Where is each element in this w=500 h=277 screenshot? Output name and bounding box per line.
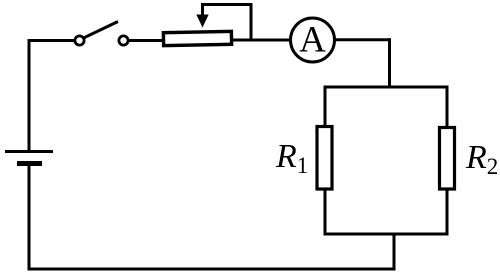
wire ammeter to corner [335, 38, 392, 41]
wire parallel bottom rail [324, 233, 449, 236]
wire R2 bottom lead [446, 188, 449, 236]
rheostat wiper arrowhead [196, 15, 208, 28]
wire top-left horizontal [28, 39, 75, 42]
rheostat body [163, 31, 231, 45]
battery cell long plate [5, 150, 53, 153]
ammeter A body [291, 18, 335, 62]
wire R1 bottom lead [324, 189, 327, 236]
wire middle drop to bottom [393, 233, 396, 271]
wire R1 top lead [324, 86, 327, 127]
wire left vertical lower [28, 164, 31, 270]
svg-text:A: A [299, 20, 326, 61]
wire left vertical upper [28, 39, 31, 152]
wire drop to parallel section [388, 38, 391, 88]
switch S left terminal [75, 36, 84, 45]
resistor R1 body [317, 127, 332, 190]
battery cell short plate [17, 161, 42, 166]
svg-text:R2: R2 [465, 139, 498, 179]
svg-text:R1: R1 [275, 138, 308, 178]
rheostat wiper arm [203, 5, 252, 41]
wire bottom horizontal [28, 268, 396, 271]
wire rheostat to ammeter [231, 39, 290, 42]
wire switch to rheostat [129, 39, 162, 42]
switch S right terminal [119, 36, 128, 45]
resistor R2 body [440, 128, 455, 190]
wire R2 top lead [446, 86, 449, 128]
switch S lever [85, 22, 119, 38]
wire parallel top rail [324, 86, 449, 89]
